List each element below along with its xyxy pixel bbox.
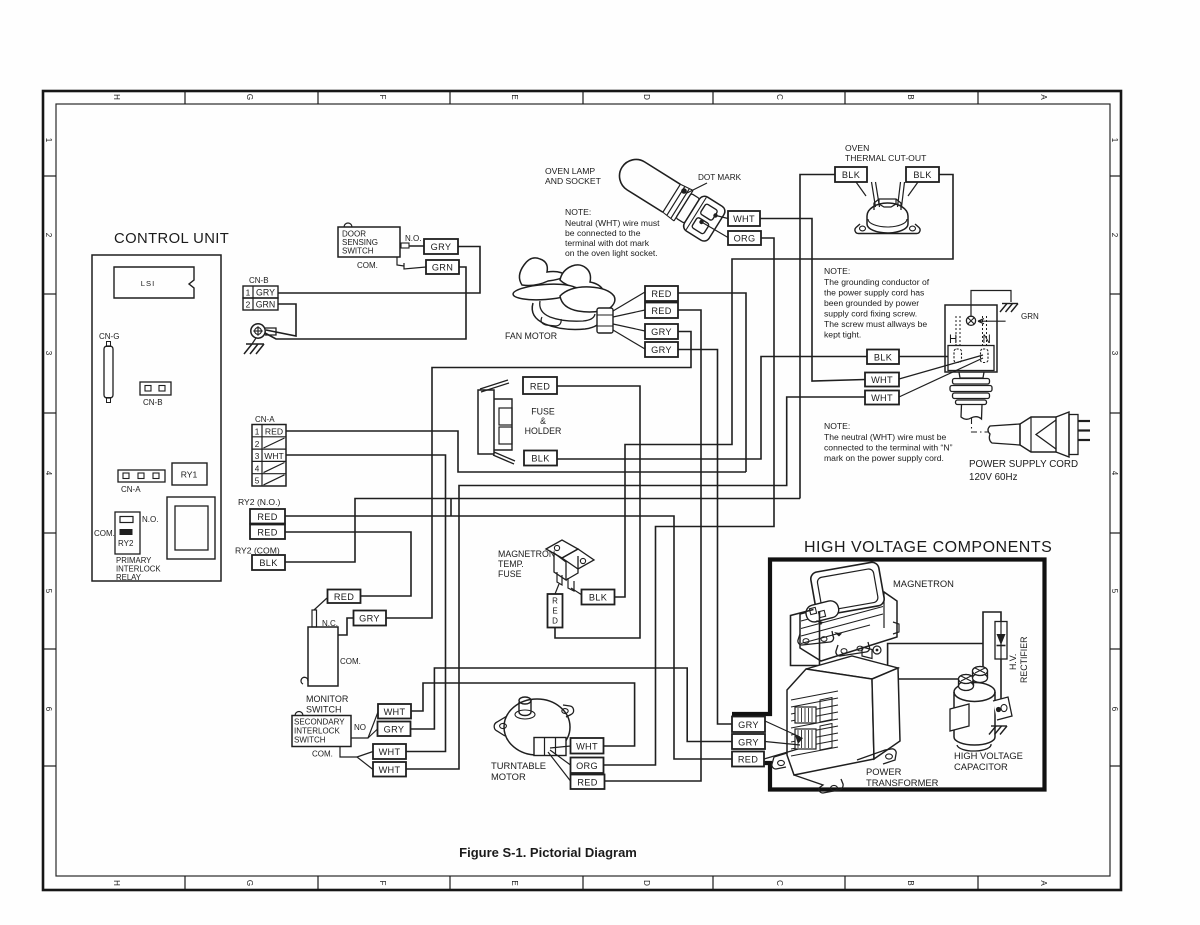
svg-text:WHT: WHT (733, 214, 755, 224)
svg-text:DOT MARK: DOT MARK (698, 173, 742, 182)
svg-text:RY2 (N.O.): RY2 (N.O.) (238, 497, 280, 507)
label box: RED (temp fuse, vertical) (548, 594, 563, 628)
svg-text:F: F (378, 95, 387, 100)
svg-text:SECONDARY: SECONDARY (294, 718, 345, 727)
svg-text:SWITCH: SWITCH (294, 736, 326, 745)
wire: CN-A pin 3 WHT to sec interlock WHT (286, 455, 446, 752)
diode D1: H.V. rectifier (995, 622, 1029, 684)
svg-text:B: B (906, 880, 915, 885)
wire: thermal cut-out BLK (left) down column (800, 175, 835, 499)
svg-text:SWITCH: SWITCH (342, 247, 374, 256)
wire: magnetron filament to capacitor terminal 1 (820, 612, 962, 680)
high voltage components enclosure (732, 539, 1052, 790)
wire: bus to RY2 COM BLK (285, 499, 800, 563)
svg-text:CN-A: CN-A (121, 485, 141, 494)
svg-text:2: 2 (44, 233, 53, 238)
svg-text:N: N (983, 334, 991, 346)
svg-text:N.O.: N.O. (142, 515, 158, 524)
label box: WHT (sec interlock NO) (378, 704, 411, 719)
label box: RED (turntable) (571, 775, 605, 790)
svg-text:supply cord fixing screw.: supply cord fixing screw. (824, 309, 917, 319)
svg-text:LSI: LSI (141, 279, 155, 288)
svg-text:RED: RED (257, 528, 277, 538)
svg-text:RED: RED (651, 289, 671, 299)
lamp LP1: oven lamp and socket (545, 150, 742, 243)
svg-text:The neutral (WHT) wire mus: The neutral (WHT) wire must be (824, 432, 946, 442)
plug P1: power supply cord (969, 412, 1090, 483)
svg-text:HOLDER: HOLDER (525, 426, 562, 436)
svg-text:1: 1 (255, 428, 260, 437)
svg-text:RED: RED (265, 427, 283, 437)
svg-text:GRY: GRY (359, 614, 380, 624)
svg-text:BLK: BLK (589, 593, 608, 603)
socket pin leads (716, 216, 728, 219)
svg-text:A: A (1039, 880, 1048, 886)
svg-text:HIGH VOLTAGE COMPONENTS: HIGH VOLTAGE COMPONENTS (804, 539, 1052, 556)
label box: GRN (door switch COM) (426, 260, 459, 274)
label box: ORG (oven lamp) (728, 231, 761, 245)
label box: WHT (sec interlock COM b) (373, 762, 406, 777)
svg-text:4: 4 (1110, 471, 1119, 476)
svg-text:TRANSFORMER: TRANSFORMER (866, 777, 939, 788)
svg-text:GRY: GRY (651, 327, 672, 337)
svg-text:RED: RED (257, 512, 277, 522)
svg-text:CAPACITOR: CAPACITOR (954, 761, 1008, 772)
label box: GRY (monitor switch) (354, 611, 387, 626)
svg-text:OVEN LAMP: OVEN LAMP (545, 166, 595, 176)
switch S3: secondary interlock switch (292, 712, 378, 770)
svg-text:connected to the terminal: connected to the terminal with “N” (824, 443, 953, 453)
svg-text:RY2: RY2 (118, 539, 134, 548)
svg-text:COM.: COM. (340, 657, 361, 666)
svg-text:GRY: GRY (738, 738, 759, 748)
svg-text:F: F (378, 881, 387, 886)
label box: BLK (power cord H) (867, 350, 899, 365)
svg-text:Figure S-1. Pictorial Diagram: Figure S-1. Pictorial Diagram (459, 845, 637, 860)
svg-text:terminal with dot mark: terminal with dot mark (565, 238, 650, 248)
switch S1: door sensing switch (338, 223, 426, 270)
wire: thermal cut-out BLK (right) to magnetron temp fuse BLK (615, 175, 954, 598)
strain relief bellows (959, 372, 984, 378)
label box: BLK (temp fuse) (582, 590, 615, 605)
svg-text:D: D (642, 94, 651, 100)
dot mark on socket (681, 188, 687, 194)
svg-text:2: 2 (255, 440, 260, 449)
svg-text:Neutral (WHT) wire must: Neutral (WHT) wire must (565, 218, 660, 228)
wire: sec interlock GRY to transformer GRY b (411, 668, 733, 742)
svg-text:4: 4 (255, 464, 260, 473)
svg-text:5: 5 (255, 477, 260, 486)
svg-text:COM.: COM. (94, 529, 115, 538)
svg-text:NO: NO (354, 723, 366, 732)
svg-text:3: 3 (44, 351, 53, 356)
svg-text:H: H (949, 334, 957, 346)
wire: fan RED 1 to fuse BLK bus (678, 293, 746, 472)
motor M2: turntable motor (491, 697, 574, 782)
svg-text:RY2 (COM): RY2 (COM) (235, 546, 280, 556)
label box: RED (RY2 NO a) (250, 509, 285, 524)
dash-dot link to plug (972, 418, 989, 432)
label box: GRY (transformer primary b) (732, 734, 765, 749)
label box: RED (fuse) (523, 377, 557, 394)
svg-text:6: 6 (1110, 707, 1119, 712)
svg-text:MAGNETRON: MAGNETRON (498, 549, 555, 559)
label box: BLK (fuse) (524, 451, 557, 466)
svg-text:BLK: BLK (874, 353, 893, 363)
motor M1: fan motor (505, 258, 645, 349)
svg-text:&: & (540, 416, 546, 426)
svg-text:G: G (245, 94, 254, 100)
wire: fan RED 2 to turntable RED (605, 310, 702, 781)
svg-text:GRN: GRN (1021, 312, 1039, 321)
svg-text:N.O.: N.O. (405, 234, 421, 243)
svg-text:WHT: WHT (264, 451, 284, 461)
note: oven lamp neutral (565, 207, 660, 258)
ground (chassis) (1002, 303, 1018, 305)
grounding screw on receptacle (966, 316, 975, 325)
svg-text:CONTROL UNIT: CONTROL UNIT (114, 231, 229, 247)
svg-text:FAN MOTOR: FAN MOTOR (505, 331, 557, 341)
svg-text:COM.: COM. (357, 261, 378, 270)
svg-text:D: D (642, 880, 651, 886)
svg-text:3: 3 (1110, 351, 1119, 356)
transformer T1: power transformer (772, 647, 939, 793)
svg-text:GRY: GRY (651, 345, 672, 355)
svg-text:The grounding conductor of: The grounding conductor of (824, 277, 930, 287)
label box: GRY (sec interlock) (378, 722, 411, 737)
svg-text:6: 6 (44, 707, 53, 712)
svg-text:NOTE:: NOTE: (824, 266, 850, 276)
svg-text:on the oven light socket.: on the oven light socket. (565, 248, 658, 258)
svg-text:ORG: ORG (576, 761, 598, 771)
svg-text:E: E (552, 607, 557, 616)
svg-text:GRY: GRY (256, 288, 275, 298)
fuse F2: magnetron temp fuse (498, 540, 594, 595)
svg-text:OVEN: OVEN (845, 143, 869, 153)
svg-text:CN-A: CN-A (255, 415, 275, 424)
svg-text:C: C (775, 94, 784, 100)
ground screw terminal (251, 324, 276, 338)
transformer primary pin leads (764, 721, 803, 759)
label box: WHT (oven lamp) (728, 211, 760, 226)
label box: GRY (fan 1) (645, 324, 678, 339)
svg-text:CN-B: CN-B (249, 276, 269, 285)
svg-text:WHT: WHT (576, 742, 598, 752)
svg-text:THERMAL CUT-OUT: THERMAL CUT-OUT (845, 153, 927, 163)
connector CN-B (harness side, 2 pins) (243, 276, 278, 310)
svg-text:be connected to the: be connected to the (565, 228, 641, 238)
wire: CN-B pin 2 GRN to ground screw (266, 304, 296, 336)
fuse F1: fuse and holder (478, 380, 561, 464)
svg-text:The screw must allways be: The screw must allways be (824, 319, 927, 329)
note: neutral wire (824, 421, 953, 463)
svg-text:MOTOR: MOTOR (491, 771, 526, 782)
svg-text:TURNTABLE: TURNTABLE (491, 760, 546, 771)
wire: CN-A pin 1 RED bus (286, 431, 746, 472)
wire: magnetron filament loop to rectifier/capacitor junction (791, 610, 984, 666)
wire: rectifier top to HV junction (983, 612, 1001, 673)
svg-text:BLK: BLK (842, 170, 861, 180)
svg-text:C: C (775, 880, 784, 886)
svg-text:AND SOCKET: AND SOCKET (545, 176, 602, 186)
wire: RY2 NO RED a to transformer RED (285, 516, 732, 759)
wire: sec interlock WHT NO to turntable WHT (411, 683, 635, 746)
svg-text:2: 2 (1110, 233, 1119, 238)
label box: ORG (turntable) (571, 758, 604, 774)
wire: oven lamp ORG to turntable motor ORG (604, 238, 775, 765)
pin N.O. (400, 245, 424, 247)
svg-text:RED: RED (738, 755, 758, 765)
svg-text:1: 1 (1110, 138, 1119, 143)
svg-text:H: H (112, 94, 121, 100)
IC LSI (114, 267, 194, 298)
svg-text:FUSE: FUSE (531, 407, 555, 417)
relay contact labels RY2 (N.O.) (235, 497, 285, 570)
relay RY1 (172, 463, 207, 485)
switch S2: monitor switch (301, 598, 361, 715)
label box: RED (monitor switch) (328, 590, 361, 604)
svg-text:GRY: GRY (384, 725, 405, 735)
svg-text:5: 5 (1110, 589, 1119, 594)
svg-text:NOTE:: NOTE: (824, 421, 850, 431)
svg-text:COM.: COM. (312, 750, 333, 759)
svg-text:GRY: GRY (431, 242, 452, 252)
svg-text:3: 3 (255, 452, 260, 461)
wire: rectifier bottom to chassis ground at capacitor clamp (1000, 659, 1002, 713)
svg-text:POWER: POWER (866, 766, 902, 777)
arrow to screw (978, 319, 1006, 324)
connector CN-A (harness side, 5 pins) (252, 415, 286, 486)
svg-text:G: G (245, 880, 254, 886)
svg-text:HIGH VOLTAGE: HIGH VOLTAGE (954, 750, 1023, 761)
magnetron MG1 (798, 561, 954, 661)
control unit U1 (CONTROL UNIT block) (92, 231, 229, 582)
svg-text:MAGNETRON: MAGNETRON (893, 578, 954, 589)
wire: door switch N.O. GRY to CN-B pin 1 (278, 247, 480, 294)
svg-text:R: R (552, 597, 558, 606)
wire: power cord WHT b to secondary interlock WHT (406, 397, 865, 769)
svg-text:FUSE: FUSE (498, 569, 522, 579)
svg-text:CN-G: CN-G (99, 332, 119, 341)
svg-text:SWITCH: SWITCH (306, 705, 342, 715)
relay RY2 contacts (primary interlock relay) (94, 512, 161, 582)
svg-text:D: D (552, 617, 558, 626)
label box: GRY (transformer primary a) (732, 717, 765, 733)
svg-text:120V 60Hz: 120V 60Hz (969, 472, 1018, 483)
svg-text:B: B (906, 94, 915, 99)
wire: power cord BLK to fuse BLK (557, 357, 867, 460)
svg-text:5: 5 (44, 589, 53, 594)
svg-text:WHT: WHT (379, 765, 401, 775)
svg-text:NOTE:: NOTE: (565, 207, 591, 217)
svg-text:RELAY: RELAY (116, 573, 142, 582)
connector CN-G (99, 332, 119, 403)
svg-text:A: A (1039, 94, 1048, 100)
svg-text:TEMP.: TEMP. (498, 559, 524, 569)
wire: magnetron temp fuse RED to fuse RED (555, 386, 640, 638)
label box: GRY (door switch N.O.) (424, 239, 458, 254)
thermostat TC1: oven thermal cut-out (845, 143, 927, 234)
svg-text:2: 2 (246, 300, 251, 310)
connector CN-B (on board) (140, 382, 171, 407)
connector CN-A (on board) (118, 470, 165, 494)
svg-text:1: 1 (44, 138, 53, 143)
svg-text:N.C.: N.C. (322, 619, 338, 628)
relay body rectangle (167, 497, 215, 559)
wire: oven lamp WHT to power cord WHT (760, 219, 865, 382)
svg-text:H: H (112, 880, 121, 886)
svg-text:GRN: GRN (432, 263, 453, 273)
wire: fan GRY 2 to transformer GRY a (678, 350, 732, 725)
svg-text:ORG: ORG (734, 234, 756, 244)
svg-text:RED: RED (530, 382, 550, 392)
svg-text:RED: RED (334, 592, 354, 602)
svg-text:4: 4 (44, 471, 53, 476)
svg-text:kept tight.: kept tight. (824, 330, 861, 340)
svg-text:RED: RED (577, 778, 597, 788)
svg-text:MONITOR: MONITOR (306, 694, 349, 704)
label box: WHT (turntable) (571, 738, 604, 754)
svg-text:E: E (510, 94, 519, 99)
label box: WHT (power cord N a) (865, 373, 899, 387)
svg-text:GRY: GRY (738, 720, 759, 730)
svg-text:RY1: RY1 (181, 470, 198, 480)
capacitor C1: high voltage capacitor (950, 667, 1023, 773)
svg-text:mark on the power supply co: mark on the power supply cord. (824, 453, 944, 463)
label box: WHT (power cord N b) (865, 391, 899, 405)
svg-text:POWER SUPPLY CORD: POWER SUPPLY CORD (969, 459, 1078, 470)
svg-text:the power supply cord has: the power supply cord has (824, 288, 924, 298)
label box: RED (fan 1) (645, 286, 678, 301)
svg-text:1: 1 (246, 288, 251, 298)
wire: thermal cut-out branch down to RY2 RED bus (450, 499, 452, 517)
label box: WHT (sec interlock COM a) (373, 744, 406, 759)
label box: RED (RY2 NO b) (250, 525, 285, 540)
svg-text:WHT: WHT (871, 375, 893, 385)
label box: BLK (thermal cut-out right) (906, 167, 939, 196)
label box: RED (fan 2) (645, 303, 678, 319)
wire: WHT boxes to N terminal (899, 355, 983, 379)
svg-text:CN-B: CN-B (143, 398, 163, 407)
svg-text:WHT: WHT (379, 747, 401, 757)
pin COM (397, 257, 404, 266)
wire: screw to chassis ground (971, 291, 1011, 317)
label box: RED (transformer primary c) (732, 752, 764, 767)
svg-text:WHT: WHT (871, 393, 893, 403)
wire: RY2 NO RED b to monitor switch RED (285, 532, 411, 596)
svg-text:BLK: BLK (531, 454, 550, 464)
note: grounding conductor (824, 266, 930, 340)
svg-text:RED: RED (651, 306, 671, 316)
svg-text:H.V.: H.V. (1008, 654, 1018, 670)
wire: door switch COM GRN to ground screw (265, 267, 466, 339)
svg-text:GRN: GRN (256, 300, 276, 310)
svg-text:BLK: BLK (913, 170, 932, 180)
label box: BLK (thermal cut-out left) (835, 167, 867, 196)
label box: GRY (fan 2) (645, 342, 678, 357)
svg-text:E: E (510, 880, 519, 885)
svg-text:BLK: BLK (259, 558, 278, 568)
svg-text:INTERLOCK: INTERLOCK (294, 727, 340, 736)
svg-text:been grounded by power: been grounded by power (824, 298, 919, 308)
connector J1: power supply cord receptacle (945, 291, 1039, 433)
svg-text:RECTIFIER: RECTIFIER (1019, 637, 1029, 683)
svg-text:WHT: WHT (384, 707, 406, 717)
label box: BLK (RY2 COM) (252, 555, 285, 570)
wire: BLK box to H terminal (899, 356, 948, 358)
ground symbol (CN-B earth) (244, 338, 264, 354)
wire: fan GRY 1 to monitor switch GRY (386, 332, 691, 619)
